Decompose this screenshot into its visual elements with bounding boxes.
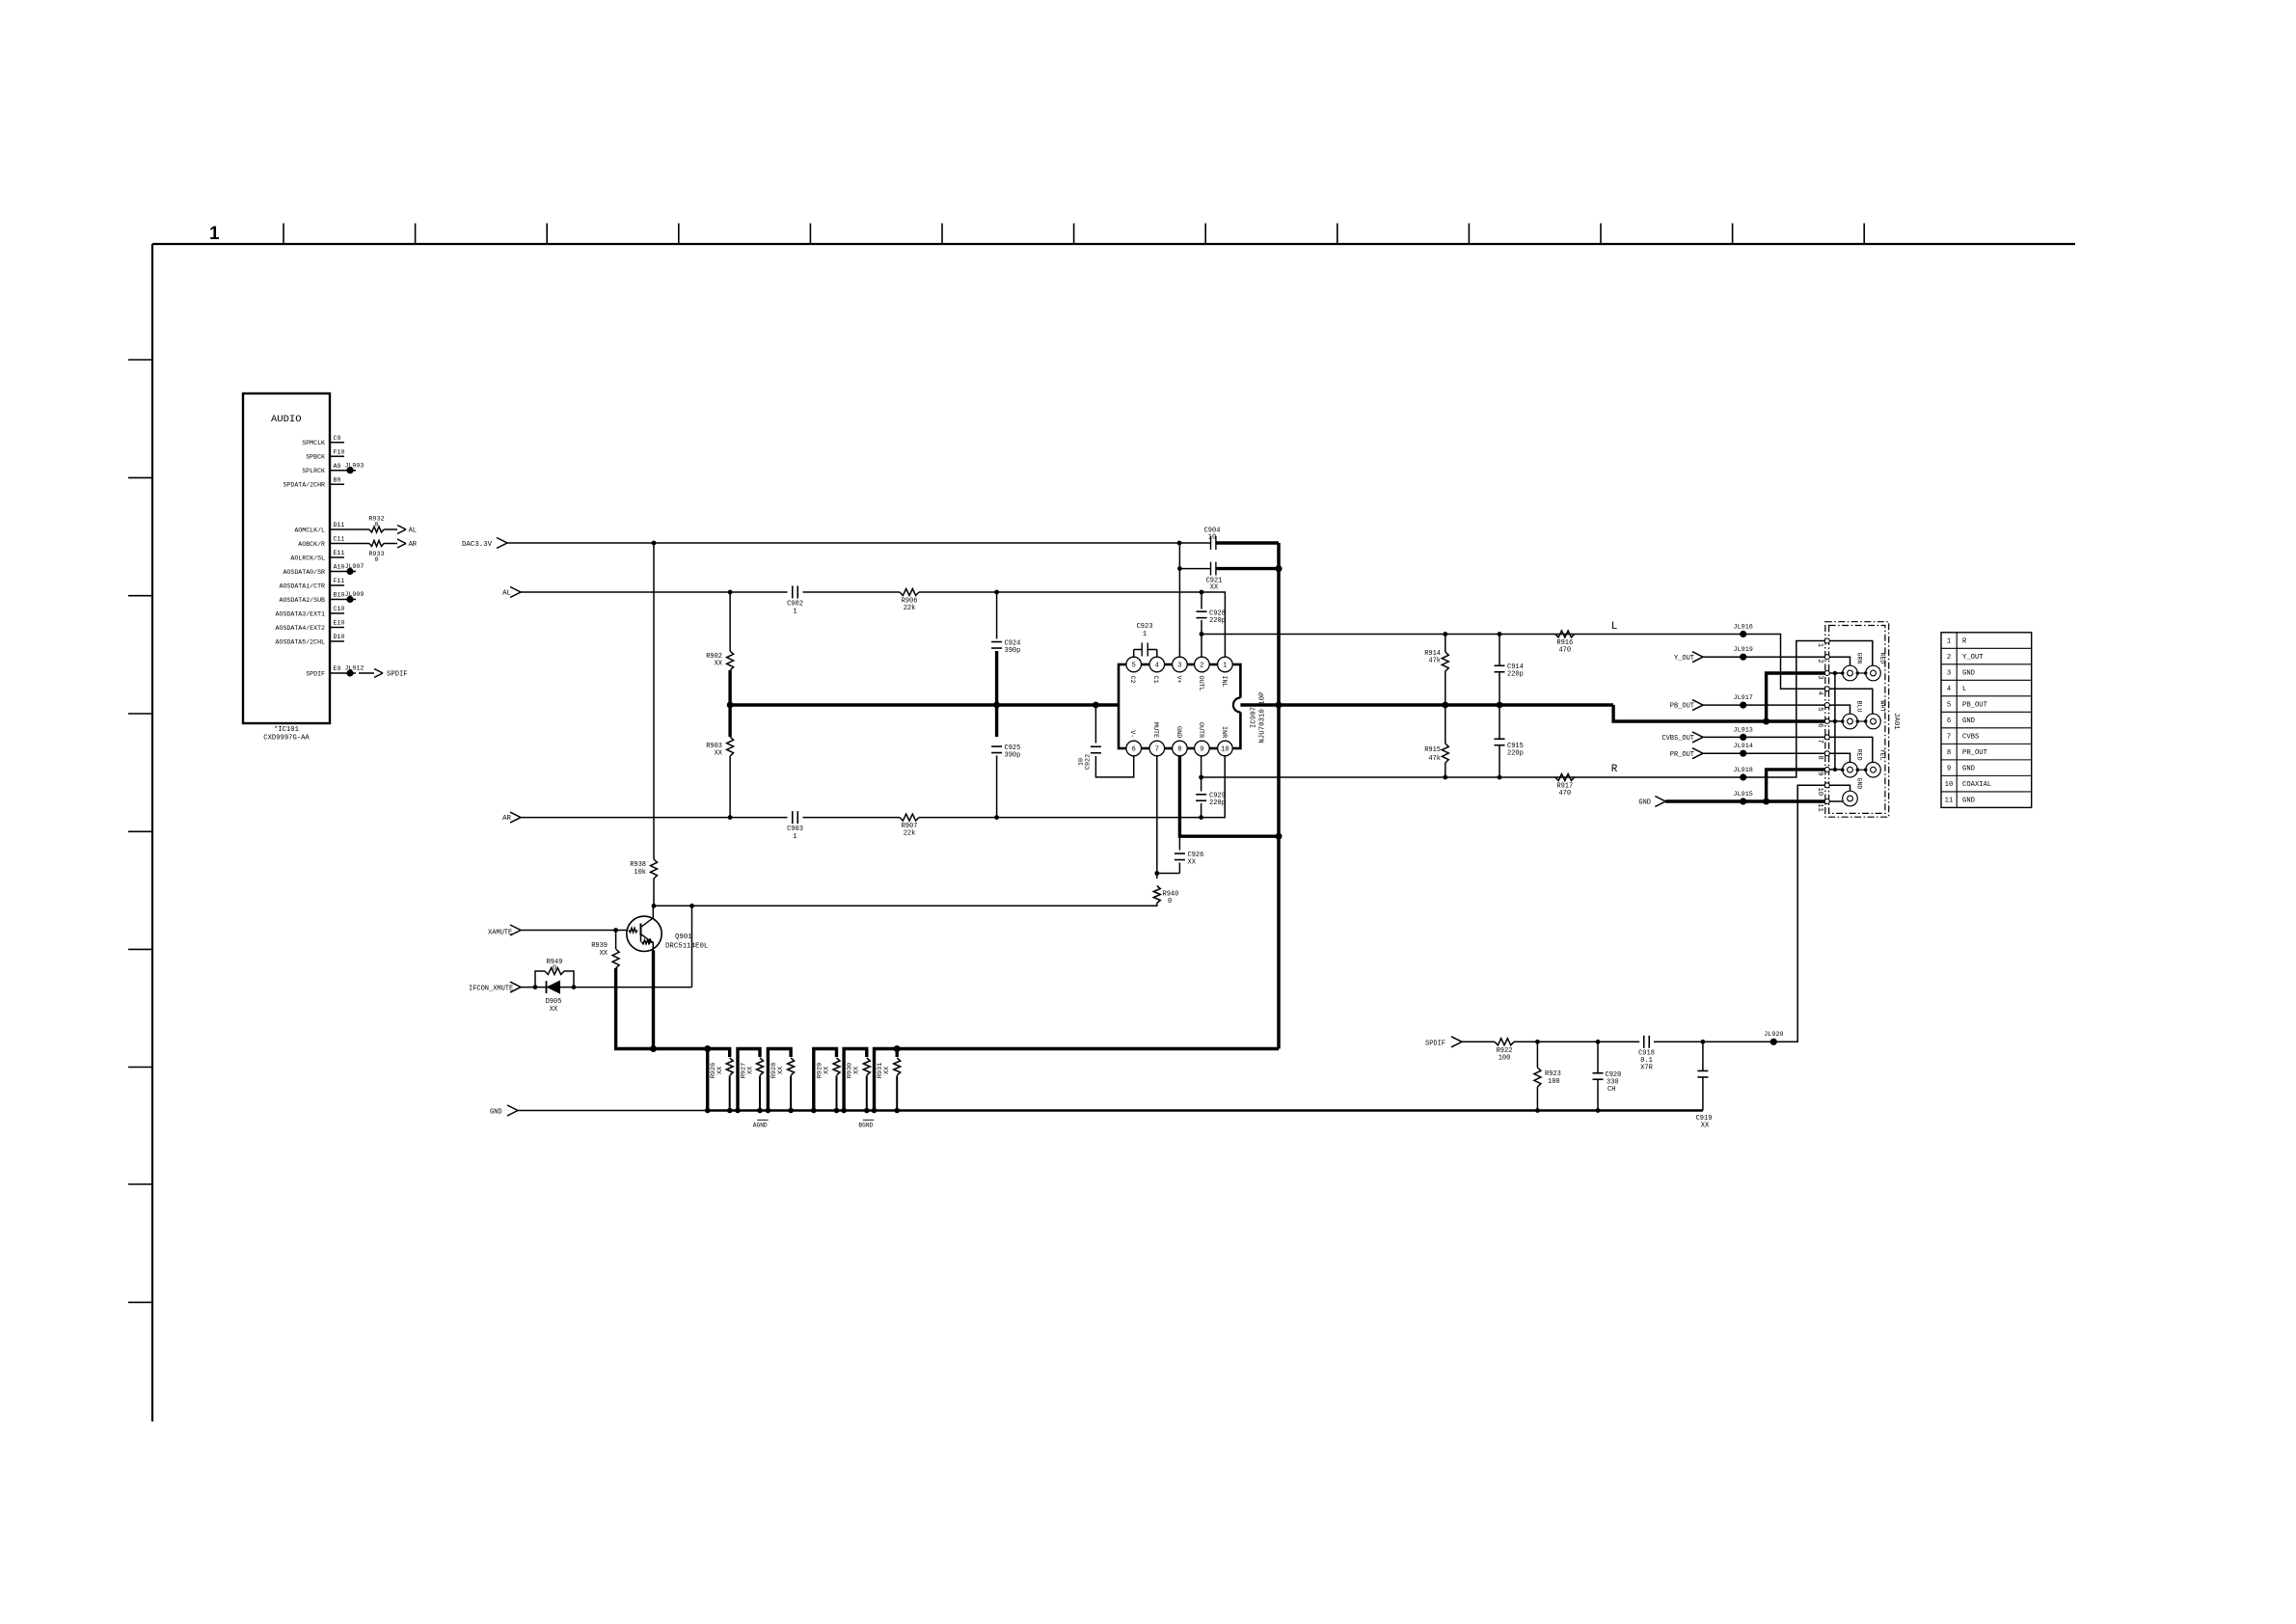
junction bus/mid rail	[1276, 702, 1283, 709]
capacitor C924 390p	[991, 592, 1020, 705]
wire L output line	[1202, 635, 1825, 690]
svg-text:22k: 22k	[904, 830, 916, 838]
resistor R915 47k	[1424, 705, 1448, 777]
svg-text:A10: A10	[334, 564, 345, 571]
wire pin7 to YEL jack	[1829, 737, 1873, 762]
junction L/R914	[1443, 632, 1447, 636]
table row 3 GND	[1947, 670, 1975, 678]
resistor R929 XX ground-link	[811, 1049, 840, 1114]
table row 1 R	[1947, 638, 1967, 646]
svg-text:AGND: AGND	[753, 1123, 768, 1129]
svg-text:OUTL: OUTL	[1197, 676, 1204, 691]
input arrow GND	[507, 1105, 518, 1116]
bold vertical GND bus	[1277, 543, 1281, 1049]
svg-text:D905: D905	[546, 998, 562, 1006]
svg-text:YEL: YEL	[1879, 749, 1886, 761]
svg-text:CVBS: CVBS	[1962, 734, 1979, 742]
IC101 pin D11 AOMCLK/L	[294, 522, 369, 533]
svg-text:JL917: JL917	[1733, 694, 1752, 702]
resistor R923 100	[1534, 1042, 1561, 1113]
svg-text:AOSDATA3/EXT1: AOSDATA3/EXT1	[276, 611, 325, 618]
capacitor C915 220p	[1495, 705, 1524, 777]
svg-text:C903: C903	[787, 826, 803, 833]
svg-text:OUTR: OUTR	[1197, 722, 1204, 738]
resistor R926 XX ground-link	[705, 1049, 733, 1114]
svg-text:220p: 220p	[1507, 750, 1524, 758]
svg-text:3: 3	[1947, 670, 1951, 678]
svg-text:5: 5	[1132, 663, 1136, 670]
svg-text:11: 11	[1816, 803, 1823, 812]
svg-text:PB_OUT: PB_OUT	[1962, 702, 1988, 710]
wire AOMCLK to AL arrow	[384, 528, 397, 530]
svg-text:220p: 220p	[1507, 671, 1524, 679]
capacitor C903 1	[787, 811, 803, 841]
RCA jack WHT	[1866, 701, 1886, 729]
svg-text:9: 9	[1947, 766, 1951, 773]
svg-text:NJU70310 10P: NJU70310 10P	[1259, 691, 1267, 744]
IC101 pin B10 AOSDATA2/SUB	[280, 592, 356, 604]
connector pin table	[1941, 633, 2032, 808]
wire Y_OUT to connector	[1703, 656, 1825, 658]
junction bus/pin8	[1276, 833, 1283, 840]
IC101 pin E9 SPDIF	[306, 665, 356, 677]
svg-text:R939: R939	[591, 942, 608, 950]
junction SPDIF/R923	[1535, 1040, 1540, 1044]
connector JA01 pin 7	[1816, 735, 1830, 744]
IC907 pin 10 INR	[1218, 726, 1233, 756]
svg-text:C922: C922	[1085, 754, 1093, 770]
svg-text:10: 10	[1221, 746, 1229, 754]
junction IFCON/R949 left	[533, 985, 538, 989]
svg-text:3: 3	[1816, 675, 1823, 679]
junction SPDIF/C919	[1701, 1040, 1706, 1044]
svg-text:E11: E11	[334, 550, 345, 556]
input arrow PB_OUT	[1692, 700, 1703, 711]
wire SPDIF line	[1462, 1041, 1495, 1042]
svg-text:SPBCK: SPBCK	[306, 454, 325, 461]
svg-text:1: 1	[793, 609, 797, 616]
svg-text:XX: XX	[715, 661, 723, 668]
svg-text:L: L	[1962, 686, 1966, 693]
table row 2 Y_OUT	[1947, 654, 1984, 662]
bold branch GND to pin9	[1767, 770, 1825, 801]
svg-text:D10: D10	[334, 634, 345, 640]
wire AR line	[521, 817, 788, 819]
sheet border top line	[152, 243, 2075, 245]
junction mute/IFCON	[689, 904, 694, 908]
svg-text:1: 1	[209, 224, 220, 244]
IC907 pin 5 C2	[1126, 657, 1142, 683]
resistor R922 100	[1495, 1039, 1514, 1063]
table row 7 CVBS	[1947, 734, 1979, 742]
svg-text:AL: AL	[409, 528, 417, 535]
svg-text:JL919: JL919	[1733, 646, 1752, 654]
junction rail/unit1	[704, 1045, 711, 1052]
input arrow AL	[510, 587, 521, 598]
svg-text:GND: GND	[1962, 798, 1975, 805]
IC IC101 AUDIO block body	[243, 393, 330, 723]
connector JA01 pin 9	[1816, 767, 1830, 775]
resistor R907 22k	[900, 814, 919, 837]
svg-text:Y_OUT: Y_OUT	[1674, 655, 1694, 663]
svg-text:D11: D11	[334, 522, 345, 528]
IC101 pin B9 SPDATA/2CHR	[283, 476, 344, 488]
svg-text:4: 4	[1155, 663, 1159, 670]
resistor R914 47k	[1424, 635, 1448, 706]
svg-text:4: 4	[1816, 691, 1823, 695]
svg-text:XX: XX	[600, 950, 608, 958]
IC101 pin A10 AOSDATA0/SR	[283, 564, 356, 576]
svg-text:7: 7	[1816, 740, 1823, 744]
jumper JL916	[1733, 624, 1752, 638]
wire AR after C903	[803, 817, 901, 819]
wire pin3 to GRN jack hub	[1829, 672, 1842, 674]
svg-text:2: 2	[1200, 663, 1203, 670]
svg-text:RED: RED	[1856, 749, 1863, 761]
resistor R917 470	[1555, 774, 1575, 798]
svg-text:XX: XX	[823, 1067, 830, 1074]
connector JA01 pin 6	[1816, 718, 1830, 727]
wire R output line	[1202, 641, 1825, 778]
svg-text:XX: XX	[1188, 859, 1197, 867]
svg-text:6: 6	[1132, 746, 1136, 754]
junction SPDIF/C920	[1596, 1040, 1601, 1044]
wire pin7 MUTE	[1156, 756, 1158, 879]
svg-text:0: 0	[374, 522, 378, 529]
IC101 pin F11 AOSDATA1/CTR	[280, 578, 345, 589]
svg-text:C9: C9	[334, 435, 341, 442]
svg-text:AR: AR	[502, 815, 511, 823]
RCA jack RED	[1843, 749, 1863, 777]
connector JA01 pin 4	[1816, 687, 1830, 695]
svg-text:AOSDATA4/EXT2: AOSDATA4/EXT2	[276, 625, 325, 632]
wire pin1 to RED jack	[1829, 641, 1873, 665]
svg-text:XX: XX	[853, 1067, 861, 1074]
connector JA01 pin 1	[1816, 638, 1830, 647]
svg-text:B10: B10	[334, 592, 345, 599]
jumper JL917	[1733, 694, 1752, 709]
wire AOBCK to AR arrow	[384, 543, 397, 545]
junction IFCON/R949 right	[572, 985, 577, 989]
wire DAC3.3V rail	[507, 542, 1211, 544]
IC907 pin 1 INL	[1218, 657, 1233, 688]
junction AR/C929	[1199, 815, 1203, 820]
junction AR/C925	[994, 815, 999, 820]
wire pin5 to BLU jack	[1829, 705, 1850, 714]
svg-text:SPDIF: SPDIF	[306, 671, 325, 678]
resistor R931 XX ground-link	[872, 1049, 901, 1114]
svg-text:6: 6	[1947, 717, 1951, 725]
table row 9 GND	[1947, 766, 1975, 773]
resistor R949 0 bypass	[535, 959, 574, 988]
wire pin8 GND bold	[1179, 756, 1279, 836]
svg-text:10: 10	[1078, 758, 1086, 766]
svg-text:SPMCLK: SPMCLK	[302, 440, 325, 447]
jumper JL903	[345, 462, 365, 474]
svg-text:1: 1	[1223, 663, 1227, 670]
jack pair link	[1841, 671, 1868, 675]
junction GND branch	[1763, 798, 1769, 805]
wire XAMUTE line	[521, 930, 628, 932]
svg-text:0: 0	[374, 556, 378, 564]
svg-text:10: 10	[1816, 788, 1823, 797]
junction mid/R902	[727, 702, 734, 709]
wire GND line right (bold)	[708, 1109, 1703, 1112]
jumper JL915	[1733, 791, 1752, 805]
svg-text:CH: CH	[1607, 1086, 1615, 1094]
svg-text:0: 0	[1168, 898, 1172, 906]
junction bold branch	[1763, 718, 1769, 725]
wire collector to mute node	[652, 906, 654, 918]
resistor R902 XX	[706, 592, 733, 670]
wire pin3 V+ to DAC rail	[1178, 543, 1180, 657]
wire GND line left	[518, 1110, 708, 1112]
svg-text:C923: C923	[1137, 623, 1153, 631]
svg-text:220p: 220p	[1209, 799, 1226, 807]
svg-text:GND: GND	[1962, 670, 1975, 678]
jumper JL907	[345, 563, 365, 575]
resistor R916 470	[1555, 631, 1575, 655]
junction R/C915	[1498, 775, 1502, 780]
wire AL after C902	[803, 591, 901, 593]
svg-text:9: 9	[1200, 746, 1203, 754]
wire IFCON up to collector node	[691, 906, 693, 987]
svg-text:MUTE: MUTE	[1151, 722, 1159, 738]
resistor R930 XX ground-link	[841, 1049, 870, 1114]
IC101 pin C9 SPMCLK	[302, 435, 344, 447]
junction OUTL/L line	[1200, 632, 1204, 636]
svg-text:7: 7	[1947, 734, 1951, 742]
svg-text:47k: 47k	[1428, 755, 1441, 763]
wire AL to INL corner	[919, 592, 1225, 657]
connector JA01 pin 10	[1816, 783, 1830, 796]
wire SPDIF to coax pin	[1773, 785, 1824, 1042]
wire CVBS_OUT to connector	[1703, 736, 1825, 738]
svg-text:PB_OUT: PB_OUT	[1670, 703, 1694, 711]
IC101 pin A9 SPLRCK	[302, 463, 356, 474]
svg-text:E10: E10	[334, 620, 345, 627]
jumper JL918	[1733, 767, 1752, 781]
capacitor C921 XX	[1179, 562, 1279, 592]
svg-text:390p: 390p	[1005, 647, 1021, 655]
junction rail/emitter	[650, 1045, 657, 1052]
svg-text:JL909: JL909	[345, 591, 365, 598]
RCA jack GRN	[1843, 653, 1863, 681]
wire GND bold to pin11	[1665, 799, 1824, 802]
svg-text:R938: R938	[630, 861, 646, 869]
svg-text:8: 8	[1947, 749, 1951, 757]
capacitor C928 220p	[1197, 592, 1226, 657]
IC101 pin E10 AOSDATA4/EXT2	[276, 620, 345, 632]
output arrow SPDIF	[374, 669, 408, 679]
IC907 orientation notch	[1233, 698, 1248, 713]
capacitor C922 10	[1078, 705, 1134, 777]
RCA jack RED	[1866, 653, 1886, 681]
svg-text:DAC3.3V: DAC3.3V	[462, 541, 493, 549]
svg-text:10: 10	[1208, 534, 1216, 542]
svg-text:3: 3	[1177, 663, 1181, 670]
svg-text:GND: GND	[1962, 717, 1975, 725]
junction mid/C922	[1093, 702, 1099, 709]
svg-text:CVBS_OUT: CVBS_OUT	[1661, 735, 1694, 743]
svg-text:*IC101: *IC101	[274, 726, 299, 734]
table row 8 PR_OUT	[1947, 749, 1988, 757]
junction node DAC/R938	[652, 541, 657, 546]
wire pin2 to GRN jack	[1829, 657, 1850, 665]
svg-text:Y_OUT: Y_OUT	[1962, 654, 1984, 662]
svg-text:GND: GND	[490, 1109, 502, 1117]
junction R/R915	[1443, 775, 1447, 780]
junction bus/C921	[1276, 565, 1283, 572]
resistor R938 10k	[630, 543, 657, 906]
IC907 pin 6 V-	[1126, 730, 1142, 756]
connector JA01 outline outer	[1825, 622, 1889, 818]
resistor R932 0	[368, 516, 384, 533]
svg-text:PR_OUT: PR_OUT	[1962, 749, 1988, 757]
op-amp IC907 NJU70310 body	[1119, 664, 1240, 748]
svg-text:1: 1	[1947, 638, 1951, 646]
svg-text:AOMCLK/L: AOMCLK/L	[294, 528, 325, 534]
wire PB_OUT to connector	[1703, 704, 1825, 706]
bold mid rail jog to connector	[1613, 705, 1824, 721]
svg-text:220p: 220p	[1209, 617, 1226, 625]
resistor R928 XX ground-link	[766, 1049, 795, 1114]
svg-text:1: 1	[1143, 631, 1147, 638]
RCA jack YEL	[1866, 749, 1886, 777]
svg-text:B9: B9	[334, 476, 341, 483]
input arrow DAC3.3V	[497, 538, 507, 549]
wire AL line	[521, 591, 788, 593]
svg-text:Q901: Q901	[675, 934, 692, 941]
svg-text:390p: 390p	[1005, 752, 1021, 760]
wire R939 to ground rail (bold)	[616, 968, 654, 1049]
capacitor C925 390p	[991, 705, 1020, 818]
resistor R933 0	[368, 541, 384, 565]
svg-text:F10: F10	[334, 448, 345, 455]
junction L/C914	[1498, 632, 1502, 636]
IC101 pin E11 AOLRCK/SL	[290, 550, 344, 561]
jack pair link	[1841, 719, 1868, 723]
svg-text:JL913: JL913	[1733, 726, 1752, 734]
svg-text:AOSDATA2/SUB: AOSDATA2/SUB	[280, 597, 326, 604]
svg-text:JL914: JL914	[1733, 743, 1752, 750]
svg-text:47k: 47k	[1428, 658, 1441, 665]
svg-text:AOSDATA1/CTR: AOSDATA1/CTR	[280, 583, 326, 590]
capacitor C929 220p	[1196, 756, 1226, 818]
svg-text:GND: GND	[1175, 726, 1182, 738]
RCA jack BLU	[1843, 701, 1863, 729]
svg-text:JL916: JL916	[1733, 624, 1752, 632]
table row 6 GND	[1947, 717, 1975, 725]
connector JA01 pin 8	[1816, 751, 1830, 760]
jumper JL919	[1733, 646, 1752, 661]
junction mid/C914	[1497, 702, 1503, 709]
svg-text:AOSDATA0/SR: AOSDATA0/SR	[283, 569, 325, 576]
svg-text:JL920: JL920	[1764, 1031, 1783, 1039]
svg-text:R: R	[1611, 764, 1618, 775]
sheet border left line	[151, 244, 153, 1421]
resistor R906 22k	[900, 589, 919, 613]
wire SPDIF after R922	[1514, 1041, 1639, 1042]
svg-text:6: 6	[1816, 723, 1823, 727]
svg-text:XX: XX	[716, 1067, 724, 1074]
svg-text:A9: A9	[334, 463, 341, 470]
svg-text:470: 470	[1558, 790, 1571, 798]
svg-text:E9: E9	[334, 665, 341, 672]
output arrow AR	[397, 539, 418, 549]
svg-text:XX: XX	[1210, 584, 1219, 592]
svg-text:C2: C2	[1128, 676, 1136, 684]
capacitor C920 330 CH	[1593, 1042, 1622, 1113]
svg-text:GND: GND	[1856, 778, 1863, 790]
IC907 pin 3 V+	[1173, 657, 1188, 683]
svg-text:INL: INL	[1220, 676, 1228, 688]
svg-text:L: L	[1611, 621, 1618, 633]
svg-text:2: 2	[1947, 654, 1951, 662]
output arrow AL	[397, 526, 417, 535]
jumper JL920	[1764, 1031, 1783, 1045]
svg-text:8: 8	[1816, 755, 1823, 759]
wire emitter to ground rail (bold)	[652, 951, 655, 1049]
svg-text:JL907: JL907	[345, 563, 365, 570]
svg-text:0: 0	[553, 965, 556, 973]
bold mid rail right of IC	[1240, 703, 1613, 706]
connector JA01 pin 2	[1816, 655, 1830, 663]
junction node DAC/pin3	[1177, 541, 1182, 546]
svg-text:WHT: WHT	[1879, 701, 1886, 713]
wire pin10 to GND jack	[1829, 785, 1850, 791]
svg-text:XX: XX	[777, 1067, 785, 1074]
junction AL/C924	[994, 590, 999, 595]
input arrow SPDIF	[1451, 1037, 1462, 1047]
svg-text:C10: C10	[334, 606, 345, 612]
svg-text:CXD9997G-AA: CXD9997G-AA	[263, 735, 310, 743]
left ruler ticks	[128, 360, 152, 1302]
junction pin3/C921	[1177, 566, 1182, 571]
IC907 pin 7 MUTE	[1149, 722, 1165, 756]
capacitor C914 220p	[1495, 635, 1524, 706]
svg-text:XX: XX	[747, 1067, 755, 1074]
wire AR to INR corner	[919, 756, 1225, 818]
svg-text:1: 1	[1816, 643, 1823, 647]
wire IFCON_XMUTE line	[521, 987, 692, 988]
svg-text:5: 5	[1816, 707, 1823, 711]
connector JA01 outline inner	[1829, 626, 1885, 814]
jumper JL914	[1733, 743, 1752, 757]
capacitor C923 1	[1134, 623, 1157, 657]
svg-text:4: 4	[1947, 686, 1951, 693]
junction rail/unit6	[894, 1045, 901, 1052]
wire pin8 to RED2 jack	[1829, 753, 1850, 762]
RCA jack GND	[1843, 778, 1863, 806]
svg-text:V-: V-	[1128, 730, 1136, 738]
svg-text:C11: C11	[334, 536, 345, 543]
junction mute/R938	[652, 904, 657, 908]
input arrow IFCON_XMUTE	[510, 982, 521, 992]
jumper JL913	[1733, 726, 1752, 741]
svg-text:JL903: JL903	[345, 462, 365, 469]
svg-text:JL915: JL915	[1733, 791, 1752, 798]
IC907 pin 4 C1	[1149, 657, 1165, 683]
svg-text:RED: RED	[1879, 653, 1886, 664]
svg-text:GND: GND	[1638, 799, 1651, 807]
svg-text:BLU: BLU	[1856, 701, 1863, 713]
wire SPDIF pin to arrow	[359, 672, 374, 674]
input arrow PR_OUT	[1692, 748, 1703, 759]
wire C926 to MUTE	[1157, 873, 1180, 875]
table row 4 L	[1947, 686, 1966, 693]
bold mid reference rail	[730, 703, 1119, 706]
